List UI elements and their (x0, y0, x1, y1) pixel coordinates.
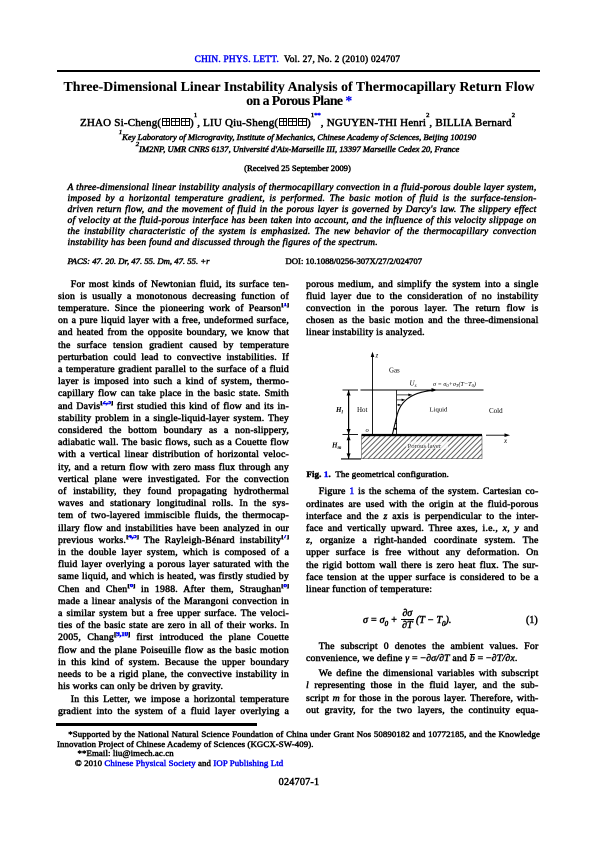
svg-text:z: z (375, 352, 379, 360)
profile arrows right (397, 394, 410, 396)
velocity profile curve (392, 390, 433, 434)
figure 1 (325, 348, 555, 468)
affiliation 2 (0, 144, 595, 154)
porous layer label (406, 442, 448, 449)
left column body (58, 279, 289, 718)
svg-text:Porous layer: Porous layer (408, 443, 442, 450)
footnote rule (56, 723, 257, 726)
affiliation 1 (0, 132, 595, 142)
page number footer (0, 777, 595, 788)
porous top interface thick line (362, 434, 483, 436)
svg-text:Hot: Hot (357, 406, 368, 414)
PACS / DOI line (68, 256, 537, 266)
profile arrows left (return flow) (395, 423, 397, 425)
figure caption (307, 469, 540, 479)
free surface line (361, 389, 484, 391)
svg-text:Hm: Hm (331, 442, 341, 452)
abstract (68, 183, 537, 249)
Hm bottom tick (341, 458, 361, 460)
Hl top tick (343, 389, 359, 391)
porous layer hatched rect (362, 436, 483, 459)
received line (0, 163, 595, 173)
header journal line (0, 55, 595, 65)
interface tick (343, 434, 359, 436)
right column part 3 (306, 641, 539, 665)
title (0, 80, 595, 108)
Hm measure line with arrows (348, 435, 350, 459)
svg-text:o: o (366, 427, 370, 434)
x axis (486, 434, 507, 436)
svg-text:σ = σ0+σT(T−T0): σ = σ0+σT(T−T0) (433, 381, 476, 388)
authors (0, 117, 595, 129)
right column part 1 (before figure) (306, 279, 539, 340)
Us surface arrowhead (432, 388, 438, 392)
svg-text:Gas: Gas (389, 368, 400, 375)
svg-text:Cold: Cold (489, 407, 503, 415)
velocity profile zero reference line (396, 390, 398, 435)
svg-text:Us: Us (410, 379, 417, 389)
svg-text:Hl: Hl (335, 406, 343, 416)
Hl measure line with arrows (348, 391, 350, 435)
header rule (57, 70, 541, 72)
footnotes (57, 730, 540, 769)
svg-text:x: x (503, 437, 508, 445)
svg-text:Liquid: Liquid (430, 407, 448, 414)
z axis (372, 356, 374, 435)
right column part 2 (after figure) (306, 486, 539, 596)
equation (1) (306, 608, 539, 634)
